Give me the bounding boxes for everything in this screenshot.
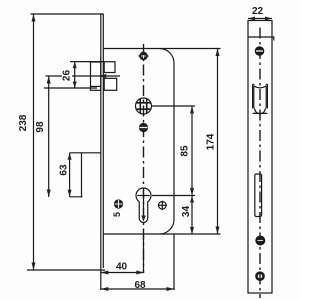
svg-text:174: 174 [206, 133, 217, 150]
svg-text:98: 98 [35, 121, 46, 133]
dimension 174 line [216, 49, 220, 235]
faceplate extension below for dims 40 68 [100, 268, 102, 290]
right fixing screw near cylinder [158, 201, 167, 210]
latch bolt inner body lower block [104, 78, 117, 90]
case edge notch right of faceplate [272, 37, 274, 41]
dimension 238 line [32, 14, 36, 270]
latch bolt inner body upper block [104, 62, 115, 73]
faceplate front view top inner line [248, 36, 272, 38]
deadbolt block left of faceplate [70, 153, 101, 197]
svg-text:5: 5 [112, 212, 122, 217]
body top edge extension line for dim 174 [160, 48, 221, 50]
latch bolt protruding head [91, 62, 101, 90]
body bottom edge extension line for dim 174 [160, 233, 221, 235]
svg-text:22: 22 [252, 6, 264, 17]
small fixing screw below hub [140, 124, 148, 132]
dimension 40 line [101, 271, 144, 275]
dimension 238 bottom extension [27, 269, 105, 271]
handle follower hub (circle with square hole grid) [136, 98, 152, 114]
roller latch seen in cutout [254, 86, 266, 114]
dimension 26 top extension [70, 61, 104, 63]
lock case body outline with rounded right corners [103, 49, 174, 235]
svg-text:26: 26 [62, 70, 73, 82]
body right edge extension for dim 68 [173, 234, 175, 290]
faceplate top screw hole [255, 47, 263, 55]
dimension 63 line [68, 153, 72, 197]
faceplate centerline (dash-dot) [259, 28, 261, 299]
main vertical centerline (dash-dot) [143, 44, 145, 273]
euro profile cylinder hole [136, 188, 151, 223]
latch centerline with left arrowhead [46, 74, 121, 78]
faceplate (main view, double line) [101, 14, 104, 268]
dimension 26 bottom extension [44, 87, 97, 89]
dimension 34 line [190, 196, 194, 235]
centerline extension below body for dim 40 [143, 234, 145, 273]
svg-text:85: 85 [180, 145, 191, 157]
faceplate bottom screw hole [257, 273, 264, 280]
svg-text:238: 238 [18, 114, 29, 131]
hub extension line for dim 85 [152, 105, 196, 107]
svg-text:68: 68 [134, 280, 146, 291]
dimension text 26 [62, 70, 72, 83]
latch cutout in faceplate [252, 85, 268, 114]
dimension 98 line [47, 76, 51, 197]
case top fixing screw (cross) [138, 51, 148, 61]
faceplate front view outline (right) [248, 21, 272, 294]
svg-text:63: 63 [59, 164, 70, 176]
svg-text:34: 34 [181, 206, 192, 218]
dimension 68 line [101, 287, 174, 291]
cylinder extension line for dims 85 and 34 [152, 195, 195, 197]
dimension 26 line [73, 62, 77, 88]
cylinder slot in faceplate [255, 174, 262, 217]
dimension 22 line [248, 17, 272, 21]
svg-text:40: 40 [116, 262, 128, 273]
left fixing screw near cylinder [115, 200, 123, 208]
faceplate middle screw hole [256, 236, 265, 245]
dimension 85 line [190, 106, 194, 196]
dimension 238 top extension [31, 13, 104, 15]
